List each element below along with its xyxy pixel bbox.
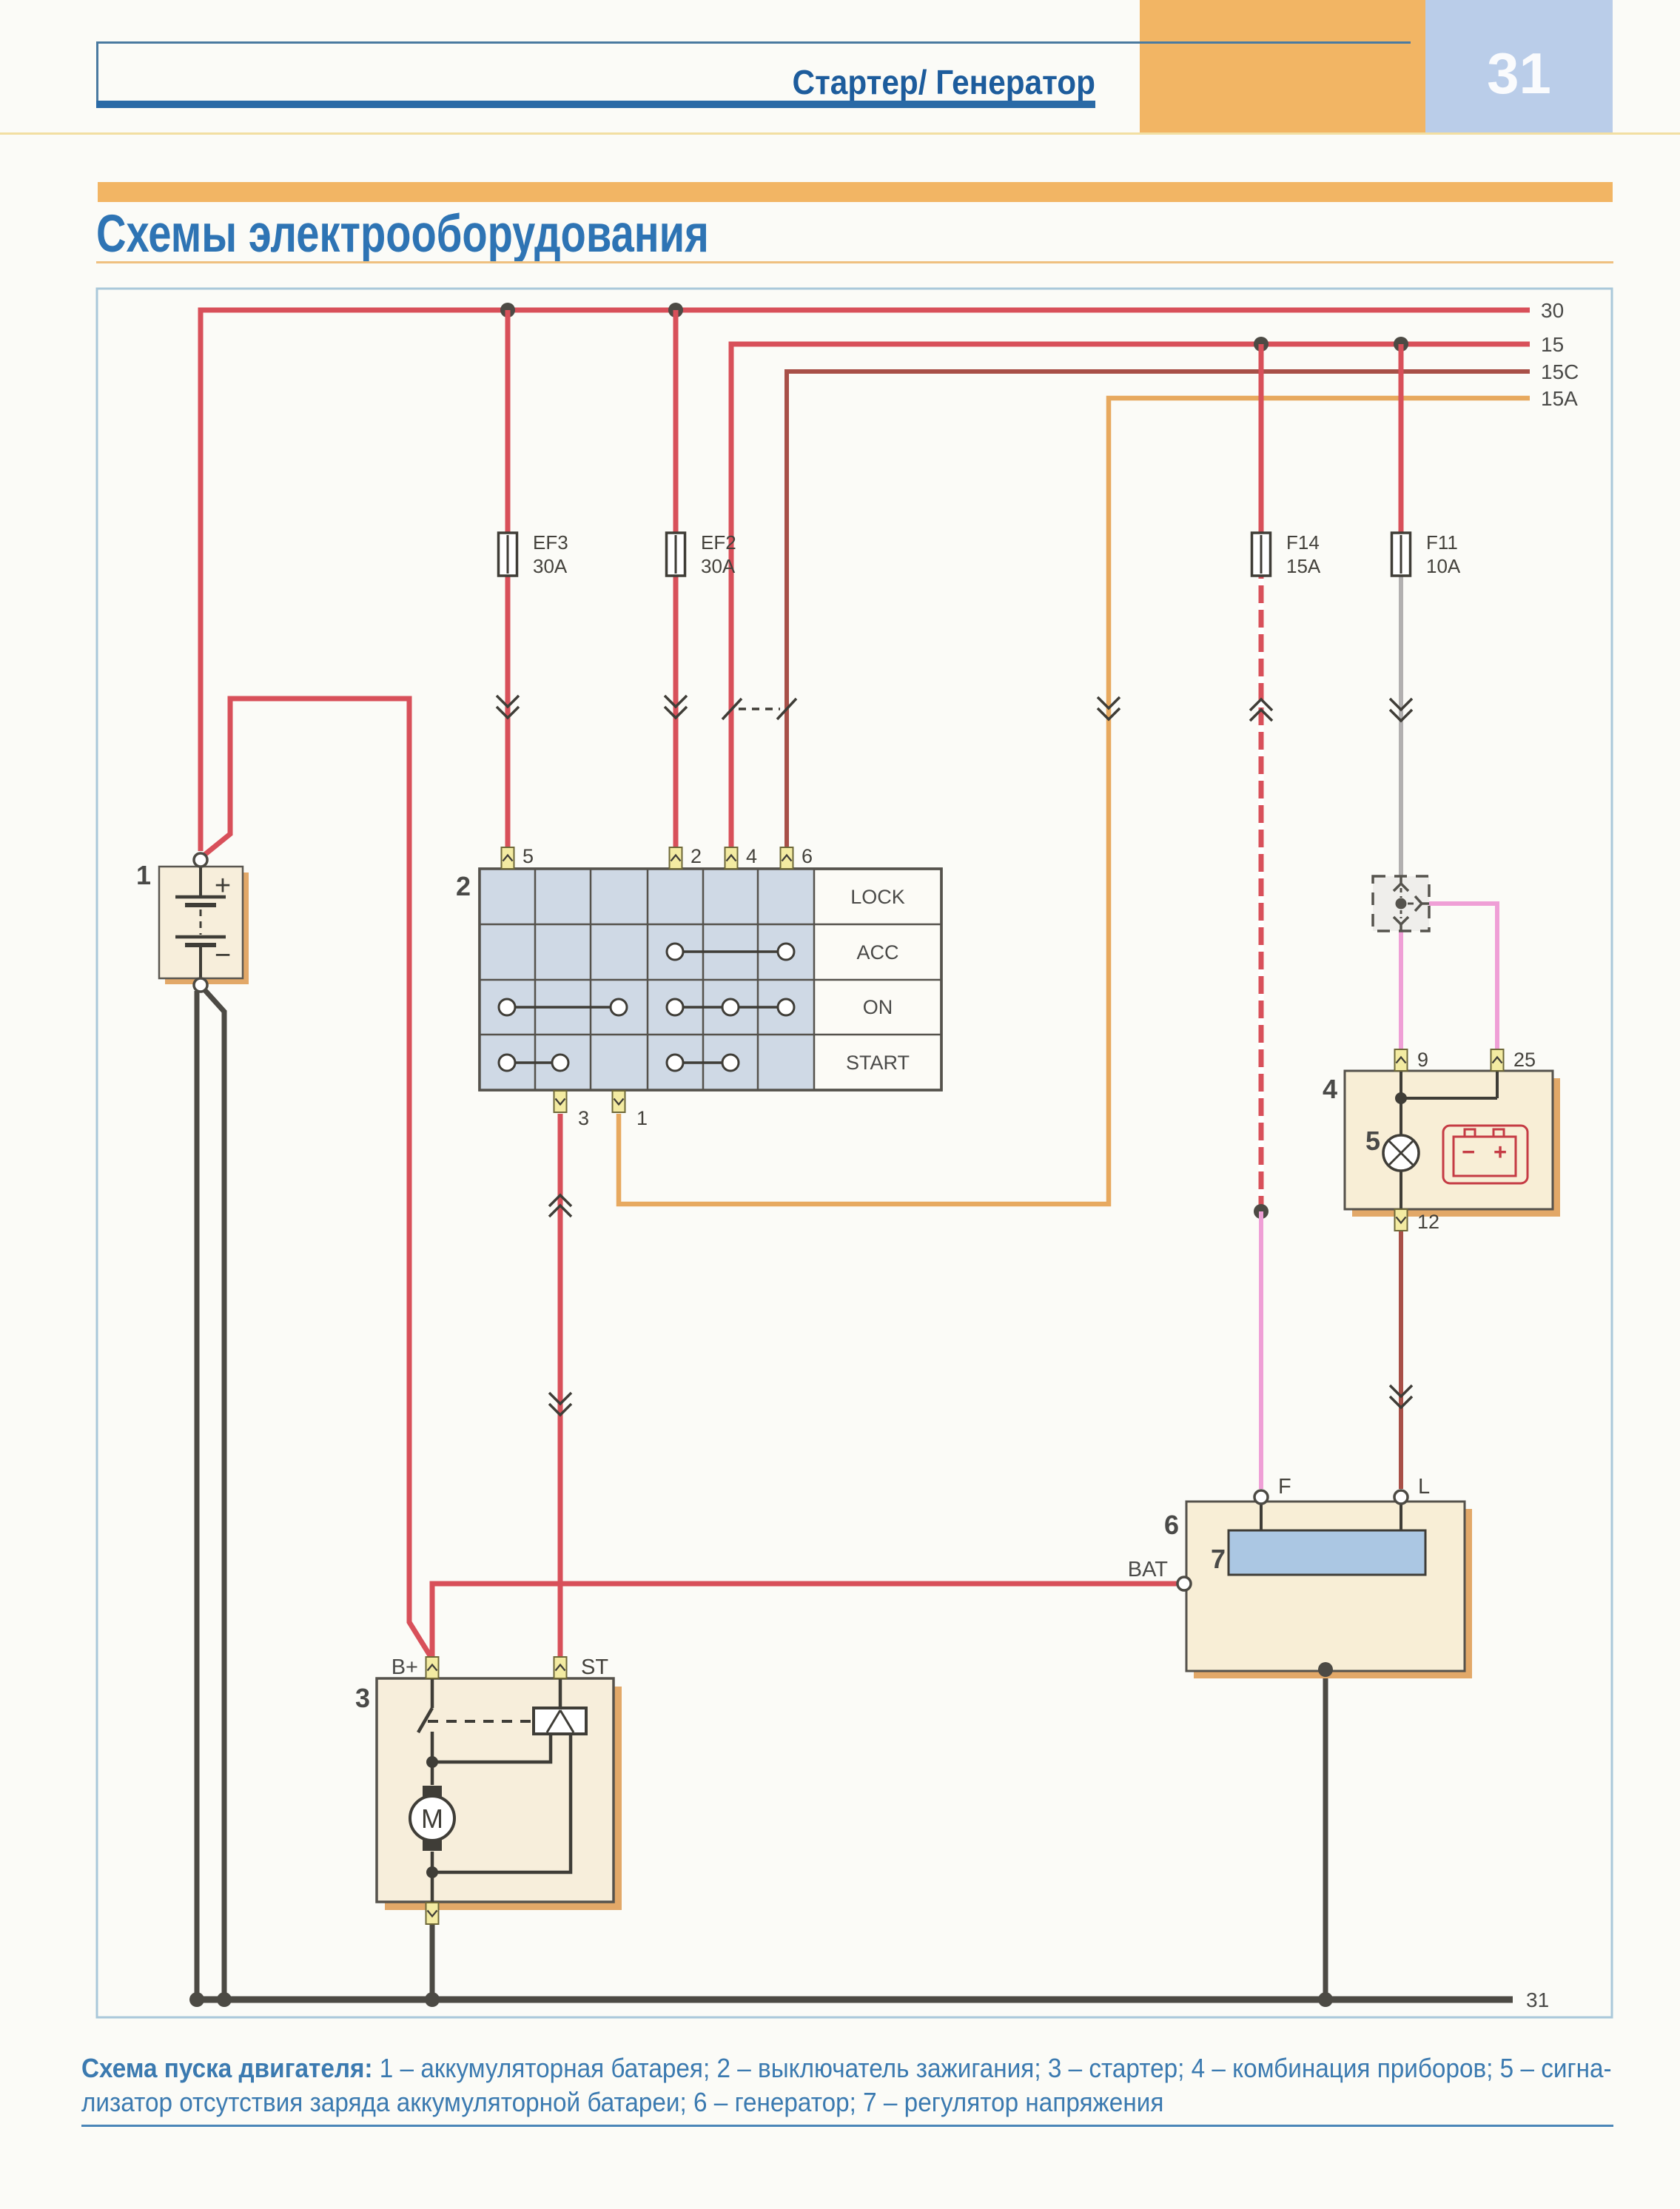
starter ST terminal (554, 1657, 567, 1678)
voltage regulator 7 (1229, 1530, 1425, 1575)
starter 3 box (377, 1678, 614, 1902)
wire: ground bus 31 (191, 1997, 1513, 2003)
starter ST lead into relay (559, 1679, 562, 1708)
node: starter junction bottom (426, 1866, 438, 1878)
ignition pin 6 (781, 847, 793, 869)
wire: starter B+ to generator BAT (red) (432, 1584, 1177, 1658)
generator terminal F (1254, 1490, 1268, 1504)
svg-text:15A: 15A (1286, 555, 1321, 577)
svg-text:−: − (215, 940, 231, 971)
svg-text:5: 5 (1365, 1126, 1380, 1156)
ignition pin 2 (670, 847, 682, 869)
svg-text:1: 1 (636, 1107, 648, 1129)
fuse F14 15A (1252, 533, 1271, 576)
wire: battery minus wire 2 (diagonal) to ground bus (204, 989, 224, 2000)
svg-text:ON: ON (863, 996, 893, 1018)
ignition pin 1 (613, 1091, 625, 1112)
starter relay coil box (534, 1708, 586, 1734)
wire: EF2 branch bus30 to ignition pin 2 (673, 310, 679, 533)
generator ground dot (1318, 1662, 1333, 1677)
ignition pin 5 (502, 847, 514, 869)
svg-text:LOCK: LOCK (850, 886, 905, 908)
page header band (1140, 0, 1425, 134)
motor M circle (410, 1796, 454, 1840)
battery terminal bottom (194, 978, 207, 992)
svg-text:9: 9 (1417, 1049, 1428, 1071)
chevron on 15A wire (1098, 697, 1120, 719)
generator internal leads (1260, 1503, 1263, 1530)
wire: bus 30 (red, top) (201, 310, 1530, 851)
generator 6 box (1186, 1502, 1465, 1671)
ignition switch 2 body (480, 869, 941, 1090)
svg-text:31: 31 (1526, 1988, 1549, 2011)
svg-text:4: 4 (1323, 1074, 1337, 1104)
section header (98, 182, 1613, 202)
wire: maroon wire pin 12 to generator L (1399, 1231, 1403, 1489)
svg-text:30: 30 (1541, 299, 1564, 322)
ignition contacts ACC row (683, 950, 778, 953)
svg-text:ST: ST (581, 1655, 608, 1679)
diagram frame border (97, 289, 1612, 2017)
chevron down on ST wire (549, 1393, 571, 1415)
svg-text:BAT: BAT (1128, 1558, 1169, 1581)
wire: pink wire splice to generator F (1259, 1211, 1263, 1489)
svg-text:3: 3 (355, 1683, 370, 1713)
cluster pin 25 (1491, 1049, 1504, 1071)
node: junction dots on bus 30 (500, 303, 515, 317)
instrument cluster 4 box (1345, 1071, 1553, 1209)
chevron up on ST wire (549, 1195, 571, 1217)
svg-text:F14: F14 (1286, 531, 1320, 554)
caption line 2 (81, 2087, 1163, 2118)
ignition contacts START row (515, 1061, 554, 1064)
starter wire switch to junction (431, 1732, 434, 1762)
starter ground terminal (426, 1903, 439, 1924)
svg-text:30A: 30A (533, 555, 568, 577)
svg-text:2: 2 (691, 845, 702, 867)
svg-text:+: + (215, 870, 231, 901)
battery 1 internal symbol (199, 867, 202, 897)
svg-text:1: 1 (136, 860, 151, 890)
wire: F14 striped red/white down to splice (1259, 576, 1264, 1205)
dashed connector box on F11 wire (1373, 876, 1429, 931)
fuse EF3 30A (499, 533, 517, 576)
caption line 1 (81, 2053, 1612, 2084)
wire: gray wire F11 fuse to connector box (1399, 576, 1403, 876)
chevron on L wire (1390, 1385, 1412, 1408)
node: junction dots on bus 15 (1254, 337, 1269, 352)
cluster pin 12 (1395, 1209, 1408, 1231)
svg-text:15C: 15C (1541, 360, 1579, 383)
starter 3 shadow (385, 1687, 622, 1910)
wire: bus 15 (red) (731, 344, 1530, 533)
node: starter junction top (426, 1756, 438, 1768)
svg-text:+: + (1493, 1139, 1507, 1165)
cluster pin 9 (1395, 1049, 1408, 1071)
ignition pin 3 (554, 1091, 567, 1112)
svg-text:L: L (1418, 1475, 1430, 1499)
svg-text:B+: B+ (392, 1655, 418, 1679)
fuse F11 10A (1392, 533, 1411, 576)
chevron on F11 wire (1390, 699, 1412, 721)
starter wire relay right leg down (432, 1734, 571, 1872)
svg-text:M: M (421, 1803, 443, 1834)
svg-text:12: 12 (1417, 1211, 1439, 1233)
starter wire relay to junction (432, 1734, 551, 1762)
charge warning lamp 5 (1383, 1135, 1419, 1171)
svg-text:6: 6 (802, 845, 813, 867)
battery terminal top (194, 853, 207, 867)
svg-text:15: 15 (1541, 333, 1564, 356)
starter B+ terminal (426, 1657, 439, 1678)
node: ground bus junction dots (189, 1992, 204, 2007)
svg-text:30A: 30A (701, 555, 736, 577)
wire: bus15C drop to ignition pin 6 (784, 371, 789, 848)
svg-text:EF3: EF3 (533, 531, 568, 554)
svg-text:15A: 15A (1541, 387, 1578, 410)
ignition switch grid lines (534, 869, 537, 1090)
svg-text:F: F (1278, 1475, 1291, 1499)
chevron on F14 wire (up) (1250, 699, 1272, 721)
generator terminal L (1394, 1490, 1408, 1504)
wire: starter ground (430, 1925, 435, 2000)
ignition pin 4 (725, 847, 738, 869)
svg-text:4: 4 (746, 845, 757, 867)
wire: generator ground (1323, 1670, 1328, 2000)
starter relay dashed link (428, 1720, 531, 1723)
wire: battery plus to starter B+ (red, long path) (203, 699, 432, 1659)
generator terminal BAT (1177, 1577, 1191, 1590)
svg-text:START: START (846, 1052, 910, 1074)
chevron on EF3 wire (497, 696, 519, 718)
wire: bus 15C (dark red) (787, 371, 1530, 533)
wire: bus15 drop to ignition pin 4 (729, 344, 734, 848)
wire: F11 branch (red above fuse) (1399, 344, 1404, 533)
svg-text:EF2: EF2 (701, 531, 736, 554)
chevron on EF2 wire (665, 696, 687, 718)
battery 1 box (159, 867, 243, 978)
svg-text:7: 7 (1211, 1544, 1226, 1574)
wire: pink wire connector box to pin 9 (1399, 931, 1403, 1049)
instrument cluster 4 shadow (1352, 1078, 1560, 1217)
svg-text:2: 2 (456, 871, 471, 901)
battery 1 shadow (165, 872, 249, 984)
wire: ignition pin 3 to starter ST (red) (558, 1114, 563, 1658)
svg-text:3: 3 (578, 1107, 589, 1129)
wire: pink wire connector box to pin 25 (1429, 904, 1497, 1049)
cluster internal wiring (1400, 1071, 1402, 1135)
wire: battery minus wire 1 to ground bus (195, 991, 200, 2000)
svg-text:25: 25 (1513, 1049, 1536, 1071)
svg-text:6: 6 (1164, 1510, 1179, 1540)
generator 6 shadow (1194, 1509, 1472, 1678)
svg-text:5: 5 (523, 845, 534, 867)
fuse EF2 30A (667, 533, 685, 576)
svg-text:ACC: ACC (856, 941, 898, 964)
svg-text:F11: F11 (1426, 531, 1458, 554)
svg-text:−: − (1462, 1139, 1475, 1165)
ignition contacts ON row (515, 1006, 611, 1009)
svg-text:10A: 10A (1426, 555, 1461, 577)
wire: F14 branch (red above fuse) (1259, 344, 1264, 533)
node: splice dot on F14 wire (1254, 1204, 1269, 1219)
starter switch from B+ (431, 1679, 434, 1708)
starter motor chain (431, 1762, 434, 1785)
battery warning icon (1443, 1126, 1528, 1183)
wire: bus 15A (orange) from ignition pin 1 (619, 398, 1530, 1204)
wire: EF3 branch bus30 to ignition pin 5 (505, 310, 511, 533)
interrupt symbol on pin4/pin6 wires (722, 699, 742, 719)
